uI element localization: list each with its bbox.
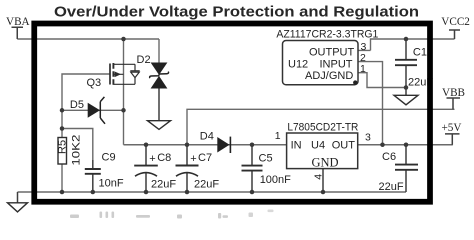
svg-text:U12: U12 [288,58,308,70]
svg-text:10nF: 10nF [99,178,124,190]
svg-text:3: 3 [365,131,371,143]
svg-text:IN: IN [291,140,302,152]
svg-text:U4: U4 [311,140,325,152]
svg-text:22uF: 22uF [151,179,176,191]
svg-text:C1: C1 [413,47,427,59]
svg-text:AZ1117CR2-3.3TRG1: AZ1117CR2-3.3TRG1 [276,28,378,40]
svg-text:1: 1 [360,63,366,75]
svg-text:+: + [190,153,196,165]
svg-text:OUT: OUT [332,140,356,152]
svg-text:R5: R5 [57,140,69,154]
svg-text:VBB: VBB [442,87,465,99]
svg-text:C8: C8 [157,152,171,164]
svg-text:C5: C5 [259,152,273,164]
svg-text:+: + [149,153,155,165]
svg-text:ADJ/GND: ADJ/GND [305,70,353,82]
svg-text:22uF: 22uF [379,181,404,193]
svg-text:VCC2: VCC2 [441,16,470,28]
svg-text:1: 1 [275,130,281,142]
svg-text:2: 2 [360,52,366,64]
svg-text:22uF: 22uF [194,179,219,191]
svg-text:GND: GND [312,156,339,170]
svg-text:C7: C7 [198,152,212,164]
svg-text:Over/Under Voltage Protection: Over/Under Voltage Protection and Regula… [54,3,419,20]
svg-text:100nF: 100nF [260,174,291,186]
svg-text:VBA: VBA [6,16,30,28]
svg-text:Q3: Q3 [87,77,102,89]
svg-text:D5: D5 [70,99,84,111]
svg-text:OUTPUT: OUTPUT [309,47,355,59]
svg-text:4: 4 [313,174,325,180]
svg-text:10K2: 10K2 [71,135,83,166]
svg-text:+5V: +5V [442,122,462,134]
svg-text:L7805CD2T-TR: L7805CD2T-TR [287,122,358,134]
svg-text:D4: D4 [200,131,214,143]
svg-text:INPUT: INPUT [320,58,353,70]
svg-text:C9: C9 [102,152,116,164]
svg-text:3: 3 [361,41,367,53]
svg-text:C6: C6 [382,151,396,163]
svg-text:D2: D2 [137,54,151,66]
